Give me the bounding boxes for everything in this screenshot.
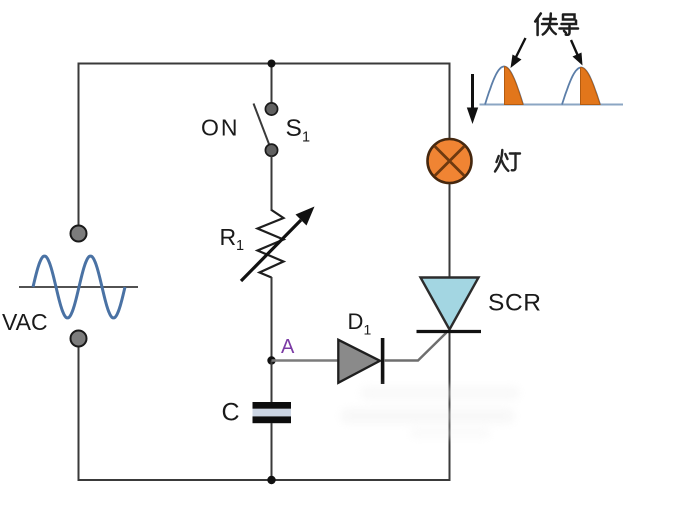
SCR triangle	[421, 278, 479, 330]
lamp cross	[435, 146, 465, 176]
diode D1 triangle	[338, 340, 380, 383]
wire bottom	[79, 479, 450, 481]
capacitor C dielectric	[253, 409, 292, 417]
waveform conduction fill 2	[581, 68, 601, 105]
capacitor C bottom plate	[253, 416, 292, 423]
node bottom junction	[267, 476, 275, 484]
wire capacitor to bottom	[271, 423, 273, 481]
wire node A to capacitor	[271, 361, 273, 403]
wire left lower	[78, 346, 80, 481]
wire diode to gate bend	[384, 333, 447, 361]
waveform hump 1	[485, 67, 523, 105]
svg-text:R: R	[220, 224, 237, 250]
diode D1 cathode bar	[381, 338, 385, 384]
switch S1 bottom contact	[265, 144, 277, 156]
wire top	[79, 63, 450, 65]
VAC terminal bottom	[71, 331, 87, 347]
svg-text:S: S	[286, 115, 302, 142]
SCR cathode bar	[417, 330, 482, 333]
VAC axis line	[19, 286, 138, 288]
VAC sine wave	[33, 256, 125, 318]
wire lamp to SCR	[449, 183, 451, 278]
resistor R1 arrow shaft	[241, 220, 301, 281]
waveform hump 2	[562, 68, 600, 105]
label conduction (Chinese: chuandao)	[535, 14, 578, 36]
svg-text:1: 1	[302, 130, 310, 146]
wire right upper	[449, 63, 451, 140]
wire node A to diode	[272, 359, 340, 362]
waveform conduction fill 1	[505, 67, 524, 105]
callout arrow left head	[511, 55, 522, 69]
current direction arrowhead	[467, 108, 478, 125]
node A junction	[267, 356, 275, 364]
capacitor C top plate	[253, 402, 292, 409]
node top junction	[268, 60, 276, 68]
svg-text:VAC: VAC	[2, 309, 48, 335]
svg-text:1: 1	[364, 322, 372, 338]
switch S1 top contact	[265, 103, 277, 115]
wire left upper	[78, 63, 80, 227]
resistor R1 arrowhead	[296, 207, 315, 226]
label lamp (Chinese: deng)	[495, 150, 520, 172]
wire SCR to bottom	[449, 331, 451, 481]
waveform baseline	[480, 104, 624, 106]
wire switch feed	[271, 64, 273, 104]
svg-text:1: 1	[236, 238, 244, 254]
callout arrow right shaft	[571, 40, 578, 56]
wire resistor to node A	[271, 277, 273, 361]
callout arrow left shaft	[515, 38, 526, 59]
wire switch to resistor	[271, 156, 273, 211]
current direction arrow shaft	[471, 74, 474, 110]
switch S1 blade	[254, 104, 271, 149]
lamp circle	[428, 139, 472, 183]
svg-text:ON: ON	[201, 115, 240, 141]
svg-text:D: D	[348, 309, 364, 334]
svg-text:SCR: SCR	[488, 290, 542, 317]
svg-text:C: C	[222, 399, 240, 427]
svg-text:A: A	[281, 336, 295, 358]
VAC terminal top	[71, 226, 87, 242]
faint watermark smudge	[340, 386, 520, 438]
callout arrow right head	[573, 53, 583, 66]
resistor R1 zigzag	[258, 210, 284, 278]
